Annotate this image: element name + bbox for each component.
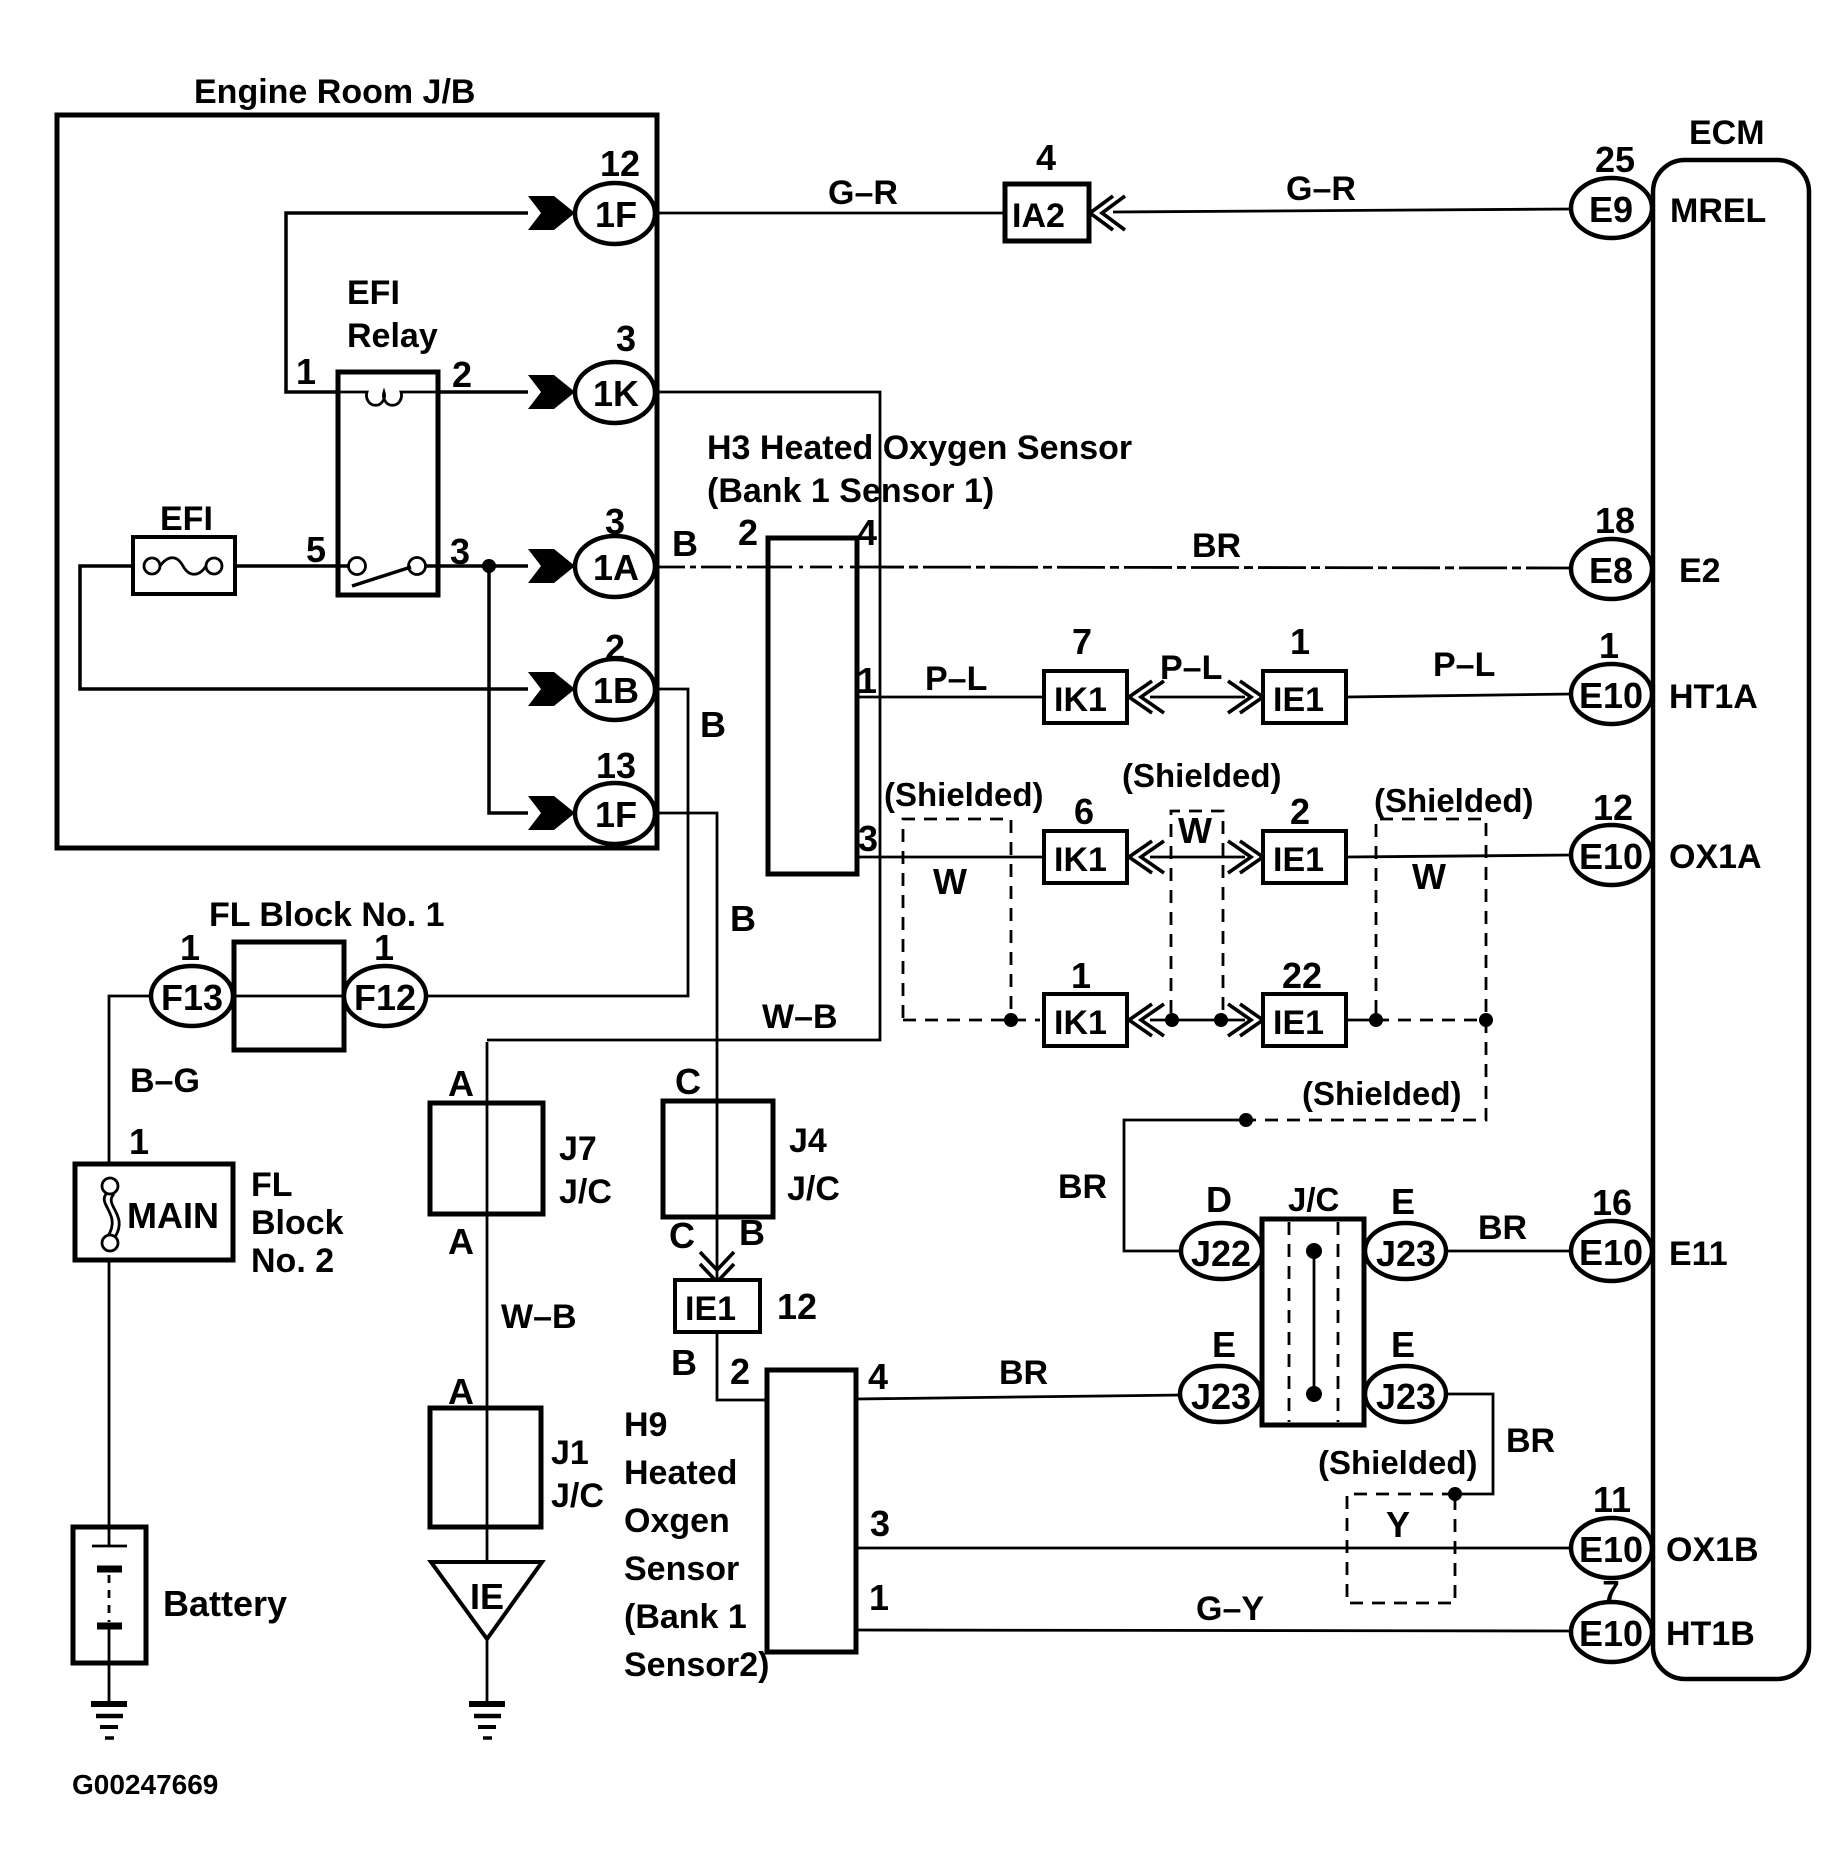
svg-text:22: 22 — [1282, 955, 1322, 996]
svg-text:W–B: W–B — [501, 1298, 577, 1336]
wire B: J4 to IE1 — [716, 1217, 719, 1282]
wire B: 1B to F12 — [427, 689, 688, 996]
svg-text:J7: J7 — [559, 1130, 597, 1168]
shield drain drop to BR — [1246, 1020, 1486, 1120]
svg-text:G–R: G–R — [1286, 170, 1356, 208]
svg-text:Relay: Relay — [347, 317, 438, 355]
shield box Y — [1347, 1494, 1455, 1603]
junction connector J7 J/C — [430, 1063, 612, 1262]
connector E10 pin 16 E11 — [1571, 1182, 1728, 1281]
wire: J1 to IE ground — [486, 1527, 489, 1565]
svg-text:E10: E10 — [1579, 1529, 1643, 1570]
wire BR: H9 pin 4 to J23 lower — [856, 1395, 1182, 1399]
svg-text:18: 18 — [1595, 500, 1635, 541]
connector J22 pin D — [1181, 1179, 1262, 1279]
sensor H9 box — [767, 1356, 890, 1652]
svg-text:A: A — [448, 1221, 474, 1262]
svg-text:Battery: Battery — [163, 1583, 287, 1624]
svg-text:3: 3 — [616, 318, 636, 359]
svg-text:Block: Block — [251, 1204, 344, 1242]
svg-text:E10: E10 — [1579, 1613, 1643, 1654]
svg-text:D: D — [1206, 1179, 1232, 1220]
wire drain between connectors — [1150, 1019, 1245, 1022]
sensor H9 labels — [624, 1406, 770, 1684]
svg-text:G00247669: G00247669 — [72, 1769, 218, 1800]
svg-text:2: 2 — [1290, 791, 1310, 832]
shield drain row: dashes from left box to IK1 — [903, 1019, 1040, 1022]
connector 1F pin 13 — [528, 745, 655, 844]
connector IE1 pin 12 — [675, 1280, 817, 1332]
wire W-B: J7 to J1 — [486, 1042, 489, 1408]
wire B: IE1 to H9 pin 2 — [717, 1332, 769, 1400]
svg-text:12: 12 — [1593, 787, 1633, 828]
svg-text:A: A — [448, 1371, 474, 1412]
svg-text:B–G: B–G — [130, 1062, 200, 1100]
svg-text:G–R: G–R — [828, 174, 898, 212]
svg-text:E8: E8 — [1589, 550, 1633, 591]
wire G-R: 1F to IA2 — [655, 212, 1006, 215]
svg-text:3: 3 — [870, 1503, 890, 1544]
svg-text:(Shielded): (Shielded) — [1318, 1444, 1478, 1481]
battery — [73, 1527, 287, 1663]
svg-text:IA2: IA2 — [1012, 197, 1065, 235]
svg-text:No. 2: No. 2 — [251, 1242, 334, 1280]
svg-text:OX1A: OX1A — [1669, 838, 1762, 876]
ground (battery) — [91, 1704, 127, 1738]
junction node Y shield — [1448, 1487, 1462, 1501]
junction node shield right1 — [1369, 1013, 1383, 1027]
wire: junction down to 1F(13) — [489, 566, 528, 813]
svg-text:1F: 1F — [595, 794, 637, 835]
svg-text:3: 3 — [605, 501, 625, 542]
wire BR: J23 to E10 E11 — [1446, 1250, 1572, 1253]
svg-text:1A: 1A — [593, 547, 639, 588]
junction node shield mid-left — [1165, 1013, 1179, 1027]
wire: 1F(12) feed from relay coil pin 1 — [286, 213, 528, 392]
svg-text:OX1B: OX1B — [1666, 1531, 1759, 1569]
junction box: Engine Room J/B — [57, 73, 657, 848]
relay contact switch — [349, 558, 426, 587]
svg-text:2: 2 — [738, 512, 758, 553]
svg-text:IE1: IE1 — [685, 1290, 736, 1328]
chevron into IE1 row1 — [1228, 681, 1263, 713]
svg-text:J23: J23 — [1191, 1376, 1251, 1417]
connector IE1 pin 22 — [1263, 955, 1346, 1046]
svg-text:EFI: EFI — [347, 274, 400, 312]
svg-text:J/C: J/C — [1288, 1181, 1339, 1218]
connector E9 pin 25 MREL — [1571, 139, 1766, 238]
svg-text:G–Y: G–Y — [1196, 1590, 1264, 1628]
svg-text:3: 3 — [858, 818, 878, 859]
wire G-R: IA2 to E9 — [1113, 209, 1572, 212]
svg-text:C: C — [675, 1061, 701, 1102]
svg-text:J23: J23 — [1376, 1376, 1436, 1417]
svg-text:1: 1 — [1290, 621, 1310, 662]
svg-text:FL Block No. 1: FL Block No. 1 — [209, 896, 445, 934]
svg-text:1: 1 — [869, 1577, 889, 1618]
shield box right (W) — [1374, 782, 1534, 1013]
svg-text:IE1: IE1 — [1273, 1004, 1324, 1042]
FL block No.2 (MAIN fusible link) — [75, 1121, 344, 1280]
sensor H3 pin 3 wire W — [856, 856, 1045, 859]
svg-text:1: 1 — [1599, 625, 1619, 666]
chevron into IE1 row3 — [1228, 1004, 1263, 1036]
connector E10 pin 7 HT1B — [1571, 1574, 1755, 1662]
connector IK1 pin 6 — [1044, 791, 1127, 883]
svg-text:IK1: IK1 — [1054, 1004, 1107, 1042]
svg-text:IE1: IE1 — [1273, 681, 1324, 719]
svg-text:J/C: J/C — [787, 1170, 840, 1208]
sensor H3 box — [738, 512, 877, 874]
svg-text:E10: E10 — [1579, 675, 1643, 716]
connector 1K pin 3 — [528, 318, 655, 423]
FL block No.1 box — [234, 942, 344, 1050]
wire BR: J23 lower to shield Y — [1446, 1394, 1493, 1494]
chevron out of IK1 row1 — [1129, 681, 1164, 713]
ground (IE) — [469, 1704, 505, 1738]
svg-text:Oxgen: Oxgen — [624, 1502, 730, 1540]
svg-text:IK1: IK1 — [1054, 841, 1107, 879]
svg-text:1: 1 — [374, 927, 394, 968]
svg-text:12: 12 — [777, 1286, 817, 1327]
wire: H9 pin 3 to E10 OX1B — [856, 1547, 1572, 1550]
svg-text:1K: 1K — [593, 373, 639, 414]
svg-text:4: 4 — [1036, 137, 1056, 178]
connector IK1 pin 1 — [1044, 955, 1127, 1046]
svg-text:C: C — [669, 1215, 695, 1256]
junction node J/C bottom — [1306, 1386, 1322, 1402]
junction connector J/C block (J22/J23) — [1262, 1181, 1364, 1425]
relay coil — [339, 392, 437, 405]
connector F12 pin 1 — [344, 927, 426, 1026]
junction node shield mid-right — [1214, 1013, 1228, 1027]
svg-text:(Shielded): (Shielded) — [884, 776, 1044, 813]
svg-text:Y: Y — [1386, 1504, 1410, 1545]
svg-text:E10: E10 — [1579, 1232, 1643, 1273]
connector E10 pin 11 OX1B — [1571, 1479, 1759, 1578]
svg-text:A: A — [448, 1063, 474, 1104]
svg-text:(Bank 1 Sensor 1): (Bank 1 Sensor 1) — [707, 472, 994, 510]
svg-text:HT1B: HT1B — [1666, 1615, 1755, 1653]
svg-text:IK1: IK1 — [1054, 681, 1107, 719]
wire: IE to ground — [486, 1639, 489, 1703]
svg-text:J22: J22 — [1191, 1233, 1251, 1274]
svg-text:H3 Heated Oxygen Sensor: H3 Heated Oxygen Sensor — [707, 429, 1132, 467]
connector E10 pin 1 HT1A — [1571, 625, 1758, 724]
svg-text:2: 2 — [452, 354, 472, 395]
svg-text:IE1: IE1 — [1273, 841, 1324, 879]
svg-text:Sensor2): Sensor2) — [624, 1646, 770, 1684]
svg-text:EFI: EFI — [160, 500, 213, 538]
svg-text:1F: 1F — [595, 194, 637, 235]
junction connector J1 J/C — [430, 1371, 604, 1527]
wire BR: drain to J22 — [1124, 1120, 1246, 1251]
svg-text:J23: J23 — [1376, 1233, 1436, 1274]
connector 1B pin 2 — [528, 627, 655, 720]
wire W between connectors — [1150, 856, 1245, 859]
svg-text:J4: J4 — [789, 1122, 827, 1160]
junction connector J4 J/C — [663, 1061, 840, 1256]
sensor H3 pin 1 wire P-L — [856, 696, 1045, 699]
svg-text:Heated: Heated — [624, 1454, 737, 1492]
svg-text:BR: BR — [1192, 527, 1241, 565]
EFI relay — [296, 274, 472, 595]
svg-text:W: W — [1412, 856, 1446, 897]
svg-text:BR: BR — [1058, 1168, 1107, 1206]
wire: relay contact to 1A — [425, 564, 528, 568]
svg-text:IE: IE — [470, 1576, 504, 1617]
svg-text:J/C: J/C — [559, 1173, 612, 1211]
svg-text:BR: BR — [999, 1354, 1048, 1392]
svg-text:BR: BR — [1478, 1209, 1527, 1247]
svg-text:HT1A: HT1A — [1669, 678, 1758, 716]
svg-text:(Bank 1: (Bank 1 — [624, 1598, 747, 1636]
svg-text:1: 1 — [180, 927, 200, 968]
junction node shield right2 — [1479, 1013, 1493, 1027]
wire B: 1A to H3 pin 2 — [655, 566, 769, 569]
svg-text:(Shielded): (Shielded) — [1302, 1075, 1462, 1112]
connector E8 pin 18 E2 — [1571, 500, 1721, 599]
svg-text:B: B — [730, 898, 756, 939]
wire: 1K to relay-coil ground W-B run — [487, 392, 880, 1040]
connector IK1 pin 7 — [1044, 621, 1127, 723]
junction node — [482, 559, 496, 573]
svg-text:(Shielded): (Shielded) — [1122, 757, 1282, 794]
svg-text:BR: BR — [1506, 1422, 1555, 1460]
shield box left (W wire) — [884, 776, 1044, 1018]
wire G-Y: H9 pin 1 to E10 HT1B — [856, 1630, 1572, 1631]
wire: F13 left to FL block No.2 — [109, 996, 152, 1166]
svg-text:12: 12 — [600, 143, 640, 184]
wire: relay pin 2 to 1K — [437, 390, 528, 394]
svg-text:4: 4 — [857, 512, 877, 553]
svg-text:P–L: P–L — [1160, 649, 1222, 687]
svg-text:7: 7 — [1072, 621, 1092, 662]
wire: fuse left loop to 1B — [80, 566, 528, 689]
svg-text:1: 1 — [857, 660, 877, 701]
chevron out of IK1 row2 — [1129, 841, 1164, 873]
chevron out of IK1 row3 — [1129, 1004, 1164, 1036]
svg-text:MREL: MREL — [1670, 192, 1766, 230]
svg-text:5: 5 — [306, 529, 326, 570]
wire W: IE1 to E10 OX1A — [1346, 855, 1572, 857]
chevron down into IE1 — [700, 1252, 734, 1282]
shield box middle (W) — [1171, 810, 1223, 1013]
connector 1A pin 3 — [528, 501, 655, 597]
svg-text:W: W — [933, 861, 967, 902]
svg-text:16: 16 — [1592, 1182, 1632, 1223]
svg-text:E: E — [1391, 1324, 1415, 1365]
svg-text:E2: E2 — [1679, 552, 1721, 590]
junction node drain-BR — [1239, 1113, 1253, 1127]
connector IE1 pin 1 — [1263, 621, 1346, 723]
svg-text:1: 1 — [1071, 955, 1091, 996]
wire P-L between connectors — [1150, 696, 1245, 699]
svg-text:E10: E10 — [1579, 836, 1643, 877]
svg-text:FL: FL — [251, 1166, 293, 1204]
svg-text:B: B — [739, 1212, 765, 1253]
junction node shield left — [1004, 1013, 1018, 1027]
svg-text:H9: H9 — [624, 1406, 667, 1444]
wire B: 1F(13) down to J4 — [655, 813, 717, 1102]
wire: MAIN to battery — [108, 1260, 111, 1530]
svg-text:6: 6 — [1074, 791, 1094, 832]
svg-text:J1: J1 — [551, 1434, 589, 1472]
svg-text:13: 13 — [596, 745, 636, 786]
svg-text:P–L: P–L — [925, 660, 987, 698]
svg-text:W: W — [1178, 810, 1212, 851]
svg-text:ECM: ECM — [1689, 114, 1765, 152]
connector J23 pin E lower-left — [1180, 1324, 1261, 1422]
wire P-L: IE1 to E10 — [1346, 694, 1572, 697]
svg-text:4: 4 — [868, 1356, 888, 1397]
fuse EFI — [133, 500, 235, 594]
junction node J/C top — [1306, 1243, 1322, 1259]
chevron into IE1 row2 — [1228, 841, 1263, 873]
connector F13 pin 1 — [151, 927, 233, 1026]
svg-text:E11: E11 — [1669, 1235, 1728, 1273]
connector J23 pin E lower-right — [1365, 1324, 1446, 1422]
svg-text:Sensor: Sensor — [624, 1550, 739, 1588]
svg-text:F12: F12 — [354, 977, 416, 1018]
svg-text:(Shielded): (Shielded) — [1374, 782, 1534, 819]
svg-text:25: 25 — [1595, 139, 1635, 180]
connector E10 pin 12 OX1A — [1571, 787, 1762, 885]
svg-text:P–L: P–L — [1433, 646, 1495, 684]
ECM module box — [1653, 114, 1809, 1679]
svg-text:W–B: W–B — [762, 998, 838, 1036]
wire: battery to ground — [108, 1663, 111, 1703]
connector IA2 pin 4 — [1005, 137, 1089, 241]
connector IE1 pin 2 — [1263, 791, 1346, 883]
svg-text:E: E — [1212, 1324, 1236, 1365]
svg-text:F13: F13 — [161, 977, 223, 1018]
svg-text:1B: 1B — [593, 670, 639, 711]
svg-text:MAIN: MAIN — [127, 1195, 219, 1236]
svg-text:E9: E9 — [1589, 189, 1633, 230]
svg-text:11: 11 — [1593, 1479, 1631, 1520]
svg-text:B: B — [700, 704, 726, 745]
chevron into IA2 — [1090, 196, 1125, 230]
svg-text:J/C: J/C — [551, 1477, 604, 1515]
svg-text:7: 7 — [1602, 1574, 1619, 1609]
svg-text:B: B — [672, 523, 698, 564]
svg-text:B: B — [671, 1342, 697, 1383]
svg-text:Engine Room J/B: Engine Room J/B — [194, 73, 475, 111]
connector J23 pin E top — [1365, 1181, 1446, 1279]
svg-text:1: 1 — [296, 351, 316, 392]
svg-text:2: 2 — [605, 627, 625, 668]
ground triangle IE — [431, 1562, 542, 1639]
connector 1F pin 12 — [528, 143, 655, 244]
svg-text:E: E — [1391, 1181, 1415, 1222]
wire: fuse to relay contact — [235, 564, 349, 568]
wire BR: H3 pin 4 to E8 (passes through sensor) — [769, 566, 856, 569]
svg-text:1: 1 — [129, 1121, 149, 1162]
svg-text:2: 2 — [730, 1351, 750, 1392]
wire drain to right shield — [1346, 1019, 1376, 1022]
